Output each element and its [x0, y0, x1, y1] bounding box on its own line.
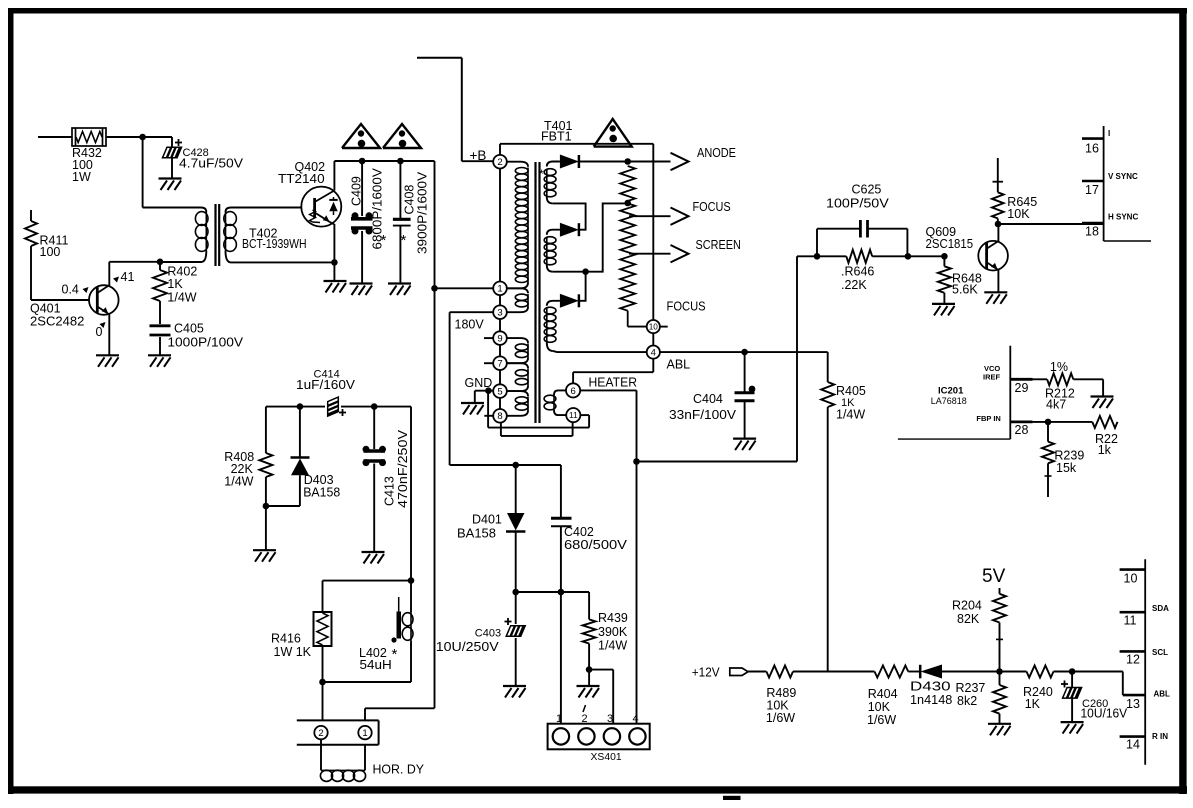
svg-text:FOCUS: FOCUS: [667, 300, 706, 314]
svg-text:R439: R439: [598, 611, 628, 625]
svg-text:2: 2: [318, 728, 323, 739]
svg-text:680/500V: 680/500V: [564, 538, 628, 552]
svg-text:4.7uF/50V: 4.7uF/50V: [179, 157, 244, 171]
svg-text:SCL: SCL: [1152, 648, 1168, 657]
svg-text:XS401: XS401: [591, 752, 623, 763]
svg-text:R404: R404: [868, 687, 898, 701]
svg-text:0: 0: [96, 325, 103, 339]
svg-text:6: 6: [570, 386, 575, 397]
svg-text:4: 4: [651, 348, 656, 359]
svg-text:2: 2: [497, 157, 502, 168]
svg-text:1/4W: 1/4W: [167, 291, 196, 305]
svg-text:V SYNC: V SYNC: [1108, 172, 1138, 181]
svg-text:1/4W: 1/4W: [224, 475, 253, 489]
svg-text:SCREEN: SCREEN: [696, 238, 741, 252]
svg-text:.22K: .22K: [841, 278, 867, 292]
svg-text:LA76818: LA76818: [931, 396, 967, 407]
svg-text:41: 41: [121, 270, 135, 284]
svg-text:5: 5: [497, 387, 502, 398]
svg-text:1/6W: 1/6W: [766, 711, 795, 725]
svg-text:1/4W: 1/4W: [836, 408, 865, 422]
svg-text:C404: C404: [693, 392, 723, 406]
svg-text:82K: 82K: [957, 612, 980, 626]
svg-text:1/6W: 1/6W: [867, 713, 896, 727]
svg-text:12: 12: [1126, 653, 1140, 667]
svg-text:HOR. DY: HOR. DY: [373, 763, 425, 777]
svg-text:16: 16: [1085, 142, 1099, 156]
svg-text:C413: C413: [383, 476, 397, 506]
svg-text:SDA: SDA: [1152, 604, 1169, 613]
svg-text:IC201: IC201: [938, 386, 964, 397]
svg-text:C405: C405: [174, 322, 204, 336]
svg-text:1uF/160V: 1uF/160V: [296, 378, 356, 392]
svg-text:7: 7: [497, 359, 502, 370]
svg-text:1k: 1k: [1098, 443, 1112, 457]
svg-text:11: 11: [569, 411, 578, 420]
svg-text:470nF/250V: 470nF/250V: [396, 429, 410, 508]
svg-text:3900P/1600V: 3900P/1600V: [416, 171, 430, 254]
svg-text:ANODE: ANODE: [697, 146, 736, 160]
svg-text:BA158: BA158: [457, 527, 496, 541]
svg-text:54uH: 54uH: [360, 658, 392, 672]
svg-text:BCT-1939WH: BCT-1939WH: [242, 237, 307, 251]
svg-text:1n4148: 1n4148: [910, 693, 952, 707]
svg-text:8k2: 8k2: [957, 694, 977, 708]
svg-text:R416: R416: [271, 632, 301, 646]
svg-text:FOCUS: FOCUS: [693, 200, 731, 214]
svg-text:*: *: [539, 167, 544, 181]
svg-text:2SC1815: 2SC1815: [926, 237, 974, 251]
svg-text:100P/50V: 100P/50V: [826, 197, 890, 211]
svg-text:8: 8: [497, 411, 502, 422]
svg-text:ABL: ABL: [1154, 690, 1171, 699]
svg-text:C409: C409: [350, 176, 364, 206]
svg-text:ABL: ABL: [667, 358, 691, 372]
svg-text:FBP IN: FBP IN: [976, 414, 1000, 423]
svg-text:390K: 390K: [598, 625, 628, 639]
svg-text:C402: C402: [564, 525, 594, 539]
svg-text:10U/250V: 10U/250V: [436, 640, 500, 654]
svg-text:3: 3: [607, 713, 613, 725]
svg-text:C408: C408: [403, 185, 417, 215]
svg-text:C403: C403: [475, 628, 501, 640]
svg-text:Q401: Q401: [30, 302, 61, 316]
svg-text:14: 14: [1126, 738, 1140, 752]
svg-text:HEATER: HEATER: [589, 376, 638, 390]
svg-text:1K: 1K: [1025, 697, 1041, 711]
svg-text:R204: R204: [952, 599, 982, 613]
svg-text:H SYNC: H SYNC: [1108, 213, 1138, 222]
svg-text:29: 29: [1015, 381, 1029, 395]
svg-text:33nF/100V: 33nF/100V: [669, 408, 737, 422]
svg-text:BA158: BA158: [303, 486, 340, 500]
svg-text:IREF: IREF: [983, 373, 1001, 382]
svg-text:R237: R237: [956, 681, 986, 695]
svg-text:I: I: [1108, 129, 1110, 138]
svg-text:9: 9: [497, 334, 502, 345]
svg-text:100: 100: [40, 245, 61, 259]
svg-text:28: 28: [1015, 423, 1029, 437]
svg-text:5.6K: 5.6K: [952, 283, 978, 297]
svg-text:4: 4: [633, 713, 639, 725]
svg-text:1W: 1W: [72, 170, 91, 184]
svg-text:1K: 1K: [167, 277, 183, 291]
svg-text:D430: D430: [910, 680, 951, 694]
svg-text:C625: C625: [852, 183, 882, 197]
svg-text:1: 1: [497, 284, 502, 295]
svg-text:.R646: .R646: [841, 265, 874, 279]
svg-text:1000P/100V: 1000P/100V: [167, 336, 243, 350]
svg-text:FBT1: FBT1: [541, 130, 572, 144]
svg-text:2SC2482: 2SC2482: [30, 315, 84, 329]
svg-text:180V: 180V: [455, 318, 485, 332]
svg-text:1W 1K: 1W 1K: [274, 645, 312, 659]
svg-text:10: 10: [649, 323, 659, 332]
svg-text:*: *: [381, 232, 387, 249]
svg-text:13: 13: [1126, 697, 1140, 711]
svg-text:1: 1: [362, 728, 367, 739]
svg-text:+12V: +12V: [692, 666, 720, 680]
svg-text:*: *: [392, 646, 398, 663]
svg-text:R405: R405: [836, 384, 866, 398]
svg-text:R IN: R IN: [1152, 732, 1168, 741]
svg-text:5V: 5V: [982, 566, 1006, 587]
svg-text:GND: GND: [465, 376, 493, 390]
svg-text:1%: 1%: [1050, 360, 1068, 374]
svg-text:11: 11: [1124, 614, 1137, 628]
svg-text:10K: 10K: [868, 700, 891, 714]
svg-text:4k7: 4k7: [1046, 398, 1066, 412]
svg-text:D401: D401: [472, 513, 502, 527]
svg-text:0.4: 0.4: [62, 283, 79, 297]
svg-text:3: 3: [497, 308, 502, 319]
svg-text:17: 17: [1085, 183, 1099, 197]
svg-text:1: 1: [556, 713, 562, 725]
svg-text:*: *: [401, 232, 407, 249]
svg-text:10U/16V: 10U/16V: [1081, 707, 1128, 721]
svg-text:2: 2: [582, 713, 588, 725]
svg-text:18: 18: [1085, 225, 1099, 239]
svg-text:15k: 15k: [1056, 461, 1077, 475]
svg-text:+B: +B: [470, 148, 487, 163]
svg-text:TT2140: TT2140: [278, 172, 325, 186]
svg-text:1/4W: 1/4W: [598, 639, 627, 653]
svg-text:10: 10: [1124, 572, 1138, 586]
svg-text:10K: 10K: [1007, 207, 1030, 221]
